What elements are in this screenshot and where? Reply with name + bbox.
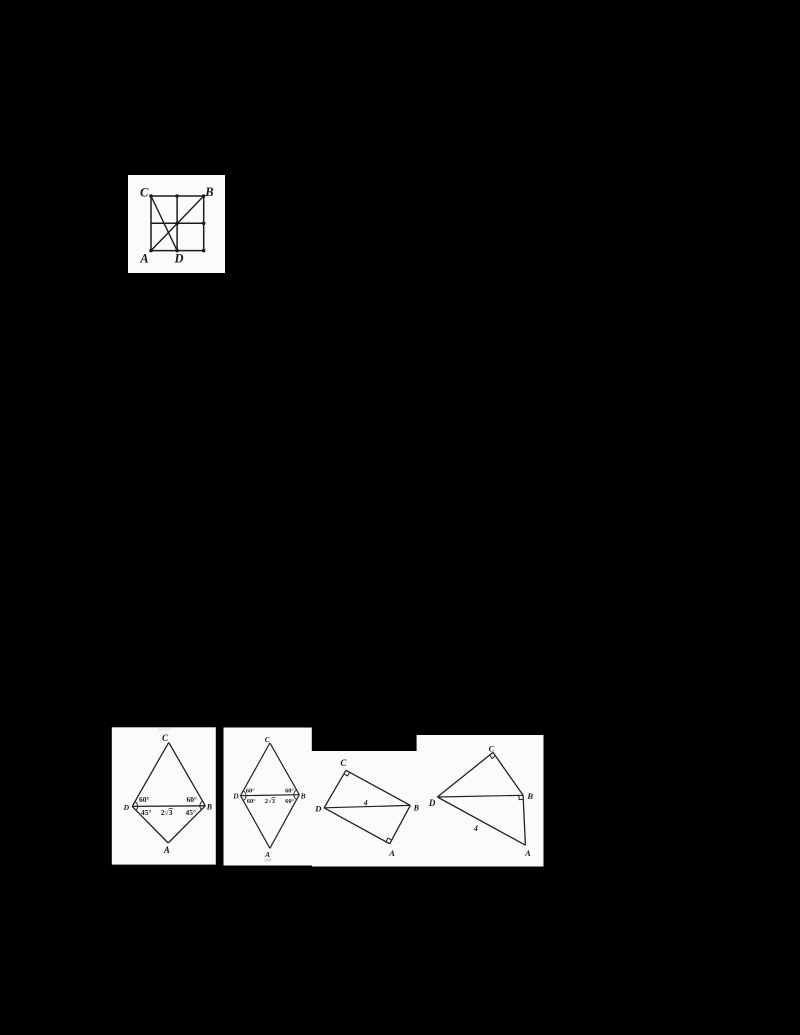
diagonal CD	[151, 196, 177, 251]
white panel: rhombus figure	[224, 728, 313, 866]
dot right midpoint	[202, 222, 206, 226]
right angle mark at C (quad4)	[490, 755, 496, 759]
svg-text:B: B	[300, 792, 306, 801]
right angle mark at A (quad3)	[386, 838, 392, 842]
rhombus edge AD	[241, 796, 270, 849]
vertex dot C	[149, 194, 153, 198]
quad4 edge BA	[523, 795, 525, 845]
square edge CA (left)	[150, 196, 152, 251]
svg-text:A: A	[264, 850, 270, 859]
radical bar (kite)	[169, 808, 173, 810]
white panel: kite figure	[112, 727, 216, 864]
square right edge	[203, 196, 205, 251]
square horizontal midline	[151, 222, 204, 224]
svg-text:D: D	[123, 803, 130, 812]
svg-text:45°: 45°	[141, 808, 152, 817]
quad4 edge DA	[437, 797, 525, 845]
kite diagonal DB	[132, 805, 205, 808]
quad4 edge CB	[493, 752, 523, 795]
svg-text:45°: 45°	[185, 808, 196, 817]
quad3 edge AD	[324, 808, 390, 844]
kite edge CB	[169, 742, 206, 805]
kite edge BA	[168, 806, 205, 843]
white panel: quadrilateral figures	[312, 735, 544, 867]
svg-text:C: C	[140, 186, 149, 200]
vertex dot D	[175, 249, 179, 253]
black redaction patch over panel top-left	[312, 727, 417, 751]
svg-text:C: C	[162, 733, 169, 743]
svg-text:C: C	[489, 744, 495, 754]
svg-text:D: D	[173, 251, 183, 265]
svg-text:D: D	[314, 803, 321, 813]
square vertical midline through D	[176, 196, 178, 251]
right angle mark at B (quad4)	[519, 795, 523, 799]
faint smudge at kite panel top	[158, 728, 171, 731]
svg-text:A: A	[388, 848, 395, 858]
svg-text:4: 4	[473, 824, 478, 833]
vertex dot A	[149, 249, 153, 253]
angle arc at D (rhombus)	[243, 791, 246, 801]
svg-text:B: B	[206, 803, 213, 812]
svg-text:60°: 60°	[187, 795, 198, 804]
angle arc at B (kite)	[200, 801, 203, 810]
quad4 line DB	[437, 795, 523, 797]
svg-text:60°: 60°	[285, 798, 294, 805]
svg-text:D: D	[232, 791, 239, 800]
diagonal AB	[151, 196, 204, 251]
kite edge AD	[132, 806, 168, 843]
svg-text:A: A	[524, 848, 531, 858]
rhombus edge CB	[270, 743, 299, 795]
kite edge DC	[132, 742, 169, 806]
svg-text:60°: 60°	[247, 798, 256, 805]
angle arc at B (rhombus)	[294, 790, 297, 800]
svg-text:A: A	[163, 845, 170, 855]
dot bottom right corner	[202, 249, 206, 253]
svg-text:C: C	[340, 758, 347, 768]
dot top midpoint	[175, 194, 179, 198]
right angle mark at C (quad3)	[344, 772, 350, 776]
angle arc at D (kite)	[135, 802, 138, 811]
svg-text:A: A	[139, 252, 148, 266]
svg-text:60°: 60°	[246, 787, 255, 794]
dot center	[175, 222, 179, 226]
white panel: top square figure	[128, 175, 225, 273]
svg-text:B: B	[413, 803, 420, 812]
quad3 diagonal DB	[324, 805, 410, 807]
rhombus diagonal DB	[241, 795, 300, 796]
rhombus edge DC	[241, 743, 270, 796]
rhombus edge BA	[270, 795, 299, 849]
svg-text:B: B	[204, 185, 213, 199]
quad4 edge DC	[437, 752, 493, 797]
square edge CB (top)	[151, 195, 204, 197]
svg-text:2√3: 2√3	[161, 808, 173, 817]
quad3 edge CB	[346, 770, 410, 805]
quad3 edge DC	[324, 770, 346, 808]
radical bar (rhombus)	[272, 797, 275, 799]
svg-text:60°: 60°	[139, 795, 150, 804]
svg-text:2√3: 2√3	[265, 797, 276, 805]
smudge under label A (rhombus)	[265, 858, 272, 862]
vertex dot B	[202, 194, 206, 198]
quad3 edge BA	[390, 805, 411, 843]
svg-text:D: D	[428, 798, 436, 808]
square bottom edge AD extended	[151, 250, 204, 252]
svg-text:B: B	[526, 791, 533, 801]
svg-text:60°: 60°	[285, 787, 294, 794]
svg-text:4: 4	[363, 798, 368, 807]
